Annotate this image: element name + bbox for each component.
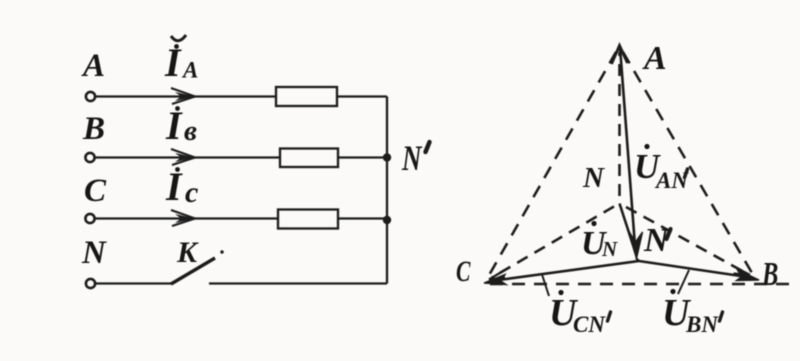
svg-text:N: N <box>601 237 618 261</box>
dashed base C-B <box>490 283 793 286</box>
label N' (bus) <box>401 138 429 178</box>
svg-text:N: N <box>401 138 422 178</box>
svg-text:I: I <box>165 164 183 209</box>
wire C to bus <box>338 217 387 219</box>
label U_AN' <box>634 144 689 193</box>
wire B to bus <box>338 156 387 158</box>
wire N left <box>96 282 172 284</box>
svg-text:N: N <box>81 235 107 271</box>
dashed vector N-C <box>492 207 614 278</box>
arrowhead at B <box>737 270 760 281</box>
resistor C <box>278 210 338 229</box>
junction node C row <box>383 216 391 224</box>
dashed vector N-B <box>626 207 746 273</box>
label IA <box>164 35 198 85</box>
svg-text:AN: AN <box>654 168 689 193</box>
vector N'-B solid <box>639 261 744 277</box>
leader tick U_BN' <box>678 270 689 294</box>
arrowhead at C <box>484 275 506 285</box>
dashed vector N-A <box>618 52 621 196</box>
svg-text:CN: CN <box>573 312 606 337</box>
label IB <box>165 103 197 148</box>
vector A-N' solid <box>620 47 635 246</box>
switch contact dot <box>220 250 223 253</box>
resistor B <box>280 149 338 168</box>
svg-text:с: с <box>185 176 198 209</box>
svg-text:BN: BN <box>685 312 719 337</box>
terminal B <box>85 153 94 162</box>
terminal A <box>86 92 95 101</box>
current arrow IC <box>171 210 195 226</box>
wire A <box>96 95 276 97</box>
dashed side A-B <box>623 52 752 273</box>
current arrow IB <box>171 149 195 165</box>
svg-text:C: C <box>456 255 471 288</box>
svg-text:A: A <box>181 58 198 83</box>
svg-text:A: A <box>81 48 105 84</box>
wire C <box>96 217 279 219</box>
junction node B row <box>383 153 391 161</box>
label U_BN' <box>662 289 723 337</box>
svg-text:C: C <box>84 173 107 209</box>
current arrow IA <box>171 88 195 104</box>
wire B <box>96 156 281 158</box>
dashed side A-C <box>488 52 616 277</box>
vector N'-C solid <box>495 261 639 281</box>
svg-text:I: I <box>165 103 183 148</box>
wire A to bus <box>337 95 387 97</box>
resistor A <box>276 87 337 106</box>
svg-text:A: A <box>642 40 667 77</box>
svg-text:B: B <box>82 111 105 147</box>
wire N right <box>209 282 387 284</box>
terminal N <box>86 279 95 288</box>
svg-text:N: N <box>582 162 605 194</box>
label IC <box>165 164 198 209</box>
arrowhead at N' <box>628 229 643 259</box>
label U_CN' <box>549 290 611 337</box>
arrowhead N-B <box>734 267 751 276</box>
leader tick U_CN' <box>542 275 549 297</box>
arrowhead N-C <box>489 271 505 280</box>
bus wire N' <box>386 97 388 284</box>
svg-text:в: в <box>184 115 197 147</box>
node N' junction <box>636 258 639 261</box>
vector N-N' solid <box>620 204 634 246</box>
svg-text:B: B <box>761 256 778 293</box>
terminal C <box>85 214 94 223</box>
svg-text:K: K <box>176 236 199 269</box>
svg-text:I: I <box>164 40 182 85</box>
switch K blade <box>171 258 215 284</box>
label U_N <box>581 221 618 262</box>
apex arrowhead at A <box>612 46 628 65</box>
